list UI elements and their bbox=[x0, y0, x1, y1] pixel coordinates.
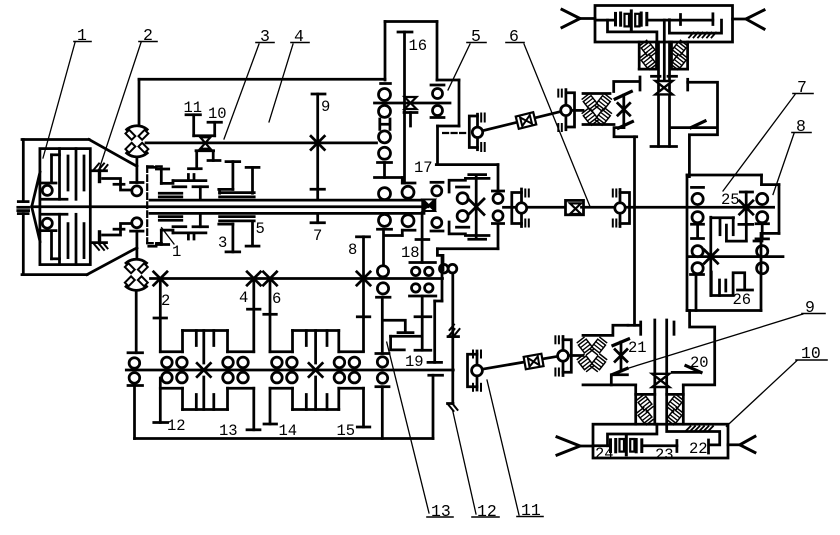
shaft coupling bowtie bbox=[524, 354, 544, 370]
neck caps bbox=[636, 393, 655, 396]
GEAR 18 column x408 bbox=[385, 178, 429, 263]
upper stair step bbox=[401, 178, 404, 184]
gear 15 cap lower bbox=[357, 426, 370, 429]
svg-text:4: 4 bbox=[294, 27, 304, 46]
svg-text:15: 15 bbox=[337, 422, 356, 440]
mirrored lower: hub double bars left bbox=[159, 215, 182, 218]
carrier bracket upper bbox=[449, 180, 465, 192]
stem down bbox=[382, 229, 385, 264]
right bearing upper bbox=[493, 194, 503, 204]
mesh cross upper axis bbox=[740, 201, 753, 214]
GEAR BLOCK 19 (2x2 bearings) bbox=[384, 263, 436, 351]
box right wall upper bbox=[497, 165, 500, 191]
gear 26 hook bbox=[711, 272, 744, 296]
box right wall bbox=[436, 22, 439, 81]
ring gear cap upper bbox=[431, 181, 443, 184]
gear 5 cap lower bbox=[246, 245, 259, 248]
box right wall lower bbox=[497, 224, 500, 249]
gear 18 stem bbox=[421, 214, 424, 263]
BRAKE ANCHORS right of master clutch bbox=[93, 157, 144, 257]
plate bar upper bbox=[173, 179, 206, 182]
tick bar below bbox=[378, 228, 392, 231]
clutch comb 14/15 base bbox=[293, 329, 339, 332]
dashed box bottom bbox=[147, 242, 163, 244]
svg-text:23: 23 bbox=[655, 446, 674, 464]
svg-text:5: 5 bbox=[256, 220, 265, 238]
svg-text:7: 7 bbox=[313, 227, 322, 245]
side bearing circle 2 bbox=[433, 106, 443, 116]
right bracket bbox=[683, 311, 714, 385]
lower cap bbox=[376, 385, 389, 388]
gear 4 tick bbox=[248, 308, 261, 311]
coupling bottom arc bbox=[127, 153, 148, 157]
wide bar bbox=[375, 176, 403, 179]
shelf over diamonds bbox=[583, 92, 610, 95]
gear 3 cap lower bbox=[226, 251, 240, 254]
gear 3 hub leg upper bbox=[218, 189, 221, 193]
gear 7 stem lower bbox=[316, 213, 319, 222]
left halfshaft arrow bbox=[562, 10, 580, 28]
upper bracket legs bbox=[719, 218, 722, 235]
bracket bbox=[512, 193, 522, 224]
joint pin bbox=[476, 114, 479, 150]
clutch plates upper bbox=[50, 155, 53, 182]
neck caps bbox=[639, 68, 656, 71]
clutch hub cap upper bbox=[156, 168, 168, 171]
clutch 19 upper hook bbox=[384, 320, 406, 331]
gear 3 hub bar lower bbox=[219, 223, 233, 226]
ELASTIC COUPLING upper bbox=[125, 79, 148, 157]
ELASTIC COUPLING lower bbox=[125, 259, 148, 438]
BOTTOM AXLE ASSEMBLY (elements 20-24) bbox=[557, 311, 755, 459]
bearing pairs below axle bbox=[162, 372, 173, 383]
lower step bracket bbox=[103, 224, 131, 236]
neck inner right bbox=[670, 42, 673, 69]
right bearing cap upper bbox=[492, 190, 503, 193]
leader 9 bbox=[624, 314, 803, 370]
RANGE PLANETARY BOX 17 bbox=[423, 165, 504, 270]
LOWER GEARBOX (range section, gears 2,4,6 / 12-15) bbox=[135, 237, 434, 439]
damper bars bbox=[609, 440, 612, 452]
leader 6 bbox=[524, 44, 590, 207]
anchor upper bar bbox=[93, 169, 107, 172]
gear 6 tick bbox=[264, 313, 277, 316]
housing bottom bbox=[135, 437, 434, 440]
lower comb teeth bbox=[181, 388, 184, 409]
right col bearing 2 bbox=[757, 212, 768, 223]
box 8 right wall bbox=[778, 185, 781, 234]
axle shaft continues bbox=[649, 19, 713, 22]
PTO SHAFT bearings below box17 bbox=[440, 264, 460, 411]
right bracket tick bbox=[686, 79, 689, 90]
neck inner left bbox=[655, 42, 658, 69]
mesh cross on countershaft bbox=[311, 136, 324, 149]
svg-text:26: 26 bbox=[733, 291, 752, 309]
LEADER LINES bbox=[43, 43, 803, 516]
top bar bbox=[410, 261, 436, 264]
neck left wall bbox=[634, 385, 637, 424]
bearing circle a bbox=[440, 264, 449, 273]
bearing circle below shaft bbox=[379, 214, 391, 226]
leader inner 1 bbox=[162, 228, 174, 244]
planet diamonds right bbox=[671, 40, 688, 58]
box 7 left wall bbox=[686, 175, 689, 311]
plate lower bars upper bbox=[173, 185, 186, 188]
tick bar bbox=[377, 296, 391, 299]
TOP AXLE ASSEMBLY (elements 1-4 top right) bbox=[562, 6, 764, 326]
leader 1 bbox=[43, 43, 75, 159]
stem to range box bbox=[436, 126, 439, 165]
tick 23 bbox=[676, 441, 679, 452]
ring bearing upper bbox=[432, 186, 442, 196]
right bearing lower bbox=[493, 211, 503, 221]
bar in box bbox=[679, 15, 682, 25]
planet cap upper bbox=[457, 186, 469, 189]
sleeve box bbox=[566, 200, 584, 214]
CALLOUT UNDERLINES bbox=[74, 42, 827, 518]
left bevel bracket bbox=[614, 82, 640, 92]
box bottom-left step bbox=[437, 249, 443, 270]
turbine gear stem lower bbox=[136, 231, 139, 257]
gear 14 stem lower bbox=[269, 388, 272, 424]
joint bracket bbox=[469, 116, 477, 148]
bevel shaft bbox=[622, 95, 625, 125]
side box right wall bbox=[458, 80, 461, 126]
box 7 top bbox=[687, 174, 762, 177]
svg-text:10: 10 bbox=[208, 105, 227, 123]
input flange cap lower bbox=[18, 212, 28, 215]
gear 3 cap upper bbox=[226, 160, 240, 163]
box top bbox=[436, 163, 498, 166]
freewheel stem bbox=[451, 337, 454, 404]
left col top tick bbox=[692, 186, 704, 189]
clutch hub bar lower bbox=[42, 213, 68, 216]
box 8 top bbox=[762, 183, 780, 186]
BOTTOM PTO JOINTS bbox=[468, 336, 608, 391]
axle box bbox=[593, 424, 728, 458]
tick bar bbox=[378, 161, 392, 164]
leader 8 bbox=[773, 134, 794, 195]
clutch 19 plate short bbox=[398, 331, 413, 334]
joint B pin bbox=[562, 337, 565, 376]
box left wall bbox=[384, 22, 387, 81]
gear 3 stem upper bbox=[232, 162, 235, 190]
box bottom bbox=[437, 247, 498, 250]
gear 18 tick bbox=[416, 238, 429, 241]
left halfshaft arrow bbox=[557, 437, 580, 455]
lower comb teeth bbox=[291, 388, 294, 409]
svg-text:24: 24 bbox=[595, 445, 614, 463]
sun shaft vertical bbox=[475, 177, 478, 237]
side box bottom bbox=[438, 125, 460, 128]
gear on axis stem bbox=[745, 192, 748, 224]
upper stair bar bbox=[402, 182, 415, 185]
gear 11 stem bbox=[192, 115, 195, 136]
box 7 right wall upper bbox=[760, 175, 763, 185]
leader 3 bbox=[224, 44, 259, 139]
leader 10 bbox=[726, 361, 797, 427]
gear 16 stem bbox=[403, 32, 406, 183]
turbine gear cap upper bbox=[131, 181, 143, 184]
housing bottom bbox=[22, 273, 87, 276]
bearing circle upper bbox=[42, 185, 52, 195]
hashes bbox=[561, 90, 563, 97]
gear on axis cap bbox=[740, 191, 752, 194]
svg-text:11: 11 bbox=[184, 99, 203, 117]
wire lower gearbox input line y278 bbox=[151, 277, 443, 280]
left col bearing 2 bbox=[692, 212, 703, 223]
pin bbox=[619, 190, 622, 227]
joint B circle bbox=[558, 350, 569, 361]
svg-text:1: 1 bbox=[172, 243, 181, 261]
gear 3 stem lower bbox=[232, 224, 235, 252]
right bracket tick bbox=[673, 322, 676, 334]
bearing circle above shaft bbox=[379, 188, 391, 200]
sleeve bowtie bbox=[570, 203, 581, 214]
long vertical to lower axle bbox=[633, 137, 636, 326]
bracket bbox=[566, 93, 575, 127]
svg-text:21: 21 bbox=[628, 339, 647, 357]
brake drum clutch bar bbox=[712, 14, 715, 25]
LAYSHAFT column x384 bbox=[375, 84, 403, 439]
clutch comb 12/13 base bbox=[183, 329, 228, 332]
plate bar lower bbox=[173, 232, 206, 235]
synchro stem bbox=[409, 113, 412, 127]
planet bearing lower bbox=[457, 211, 468, 222]
svg-text:5: 5 bbox=[471, 27, 481, 46]
freewheel upper hatches bbox=[449, 329, 455, 336]
input bowtie coupling bbox=[423, 199, 435, 211]
upper step cap bbox=[114, 183, 124, 186]
left col stem to bottom bbox=[695, 275, 698, 311]
lower stair step bbox=[401, 230, 404, 235]
gear 5 stem upper bbox=[251, 167, 254, 193]
right col bottom tick bbox=[754, 240, 762, 243]
planet diamonds left bbox=[636, 394, 653, 412]
anchor upper hatches bbox=[94, 164, 100, 171]
H link bbox=[380, 119, 390, 129]
leader 4 bbox=[269, 44, 293, 122]
joint A hashes bbox=[472, 351, 474, 358]
planetary mesh cross bbox=[469, 199, 485, 215]
lower axis mesh cross bbox=[704, 250, 717, 263]
left halfshaft line bbox=[580, 445, 593, 448]
svg-text:1: 1 bbox=[77, 26, 87, 45]
coupling top arc bbox=[127, 126, 148, 130]
bevel tooth lower bbox=[613, 369, 628, 375]
step to plate upper bbox=[161, 181, 173, 184]
bearing pairs above axle bbox=[162, 357, 173, 368]
plate upper bars lower bbox=[173, 225, 186, 228]
bearing circle bbox=[379, 105, 391, 117]
bearing circle lower bbox=[402, 215, 414, 227]
damper bars bbox=[614, 13, 617, 25]
shelf under diamonds bbox=[583, 123, 614, 126]
svg-text:10: 10 bbox=[801, 344, 821, 363]
top cap bbox=[381, 82, 391, 85]
svg-text:11: 11 bbox=[521, 501, 541, 520]
right halfshaft line bbox=[728, 443, 740, 446]
dashed box left bbox=[146, 166, 148, 243]
leader 7 bbox=[723, 95, 795, 192]
fork lower bar bbox=[196, 149, 214, 152]
svg-text:6: 6 bbox=[272, 290, 281, 308]
svg-text:22: 22 bbox=[689, 440, 708, 458]
GEARBOX 16 (top box) bbox=[375, 22, 460, 184]
anchor lower stem bbox=[98, 232, 101, 243]
joint A pin bbox=[476, 351, 479, 390]
upper bracket right leg bbox=[745, 224, 748, 241]
joint circle bbox=[561, 105, 571, 115]
synchro cap bbox=[404, 111, 417, 114]
idler shaft vertical bbox=[709, 217, 712, 295]
pto stem bbox=[451, 273, 454, 337]
bearing circle lower bbox=[42, 218, 52, 228]
mesh cross on axle left bbox=[197, 363, 210, 376]
clutch bearing cap lower bbox=[42, 229, 57, 232]
right bearing cap lower bbox=[492, 222, 503, 225]
shelf bars y351.8 bbox=[160, 350, 182, 353]
GEAR 9 and GEAR 7 column bbox=[311, 94, 325, 223]
axle shaft inside bbox=[593, 444, 610, 447]
joint A bracket bbox=[468, 354, 478, 387]
gear 2 stem bbox=[159, 279, 162, 352]
axle shaft inside bbox=[595, 19, 615, 22]
bar 22 bbox=[707, 440, 710, 453]
bearing circle bbox=[379, 89, 391, 101]
upper step bracket bbox=[103, 179, 131, 191]
gear 16 cap bbox=[398, 31, 412, 34]
right halfshaft arrow bbox=[746, 10, 764, 29]
right col bearing 1 bbox=[757, 193, 768, 204]
planet cap lower bbox=[457, 226, 469, 229]
right col link bars bbox=[756, 224, 769, 239]
gear 26 inner legs bbox=[718, 280, 721, 296]
upper countershaft 2 line bbox=[375, 102, 451, 105]
hashes bbox=[524, 190, 526, 197]
gear 3 hub bar upper bbox=[219, 188, 233, 191]
stem to housing bottom bbox=[133, 386, 136, 439]
mesh cross gear 4 bbox=[247, 272, 260, 285]
clutch 19 plate long bbox=[391, 335, 422, 338]
gear 20 bevel tooth bbox=[686, 366, 701, 373]
box top bbox=[385, 20, 437, 23]
fork upper bar bbox=[194, 134, 215, 137]
shaft nose upper diagonal bbox=[32, 172, 40, 207]
wall lower bbox=[432, 375, 435, 438]
hub double bars right upper bbox=[220, 191, 255, 194]
right halfshaft line bbox=[733, 18, 747, 21]
housing top bbox=[22, 138, 89, 141]
comb teeth bbox=[181, 331, 184, 352]
left col bottom tick bbox=[691, 273, 704, 276]
leader 13 bbox=[387, 342, 429, 513]
housing top diagonal bbox=[89, 140, 137, 167]
anchor upper stem bbox=[98, 171, 101, 182]
shaft nose lower diagonal bbox=[32, 207, 40, 242]
stem down bbox=[421, 296, 424, 350]
wire top long line y79 bbox=[139, 78, 385, 81]
MAIN_SHAFT_GROUP bbox=[32, 200, 774, 213]
LOWER GEARBOX RIGHT WALL bbox=[428, 255, 443, 438]
gear 7 tick lower bbox=[311, 221, 324, 224]
freewheel upper bar bbox=[448, 335, 459, 338]
shaft caps bbox=[652, 75, 661, 78]
upper-left bracket bbox=[583, 325, 628, 335]
bearing circles row2 bbox=[412, 284, 420, 292]
joint A circle bbox=[472, 365, 483, 376]
bevel mesh cross bbox=[615, 350, 627, 362]
UNIVERSAL JOINT 1 on output shaft bbox=[512, 189, 529, 227]
wire main shaft lower line bbox=[150, 212, 424, 215]
left col bearing 1 bbox=[692, 193, 703, 204]
wire main shaft upper line bbox=[150, 199, 424, 202]
bevel tooth lower bbox=[618, 122, 632, 129]
leader 12 bbox=[453, 410, 476, 514]
svg-text:8: 8 bbox=[796, 117, 806, 136]
svg-text:25: 25 bbox=[721, 191, 740, 209]
plate stem to shaft upper bbox=[199, 187, 202, 200]
bevel shaft bbox=[620, 342, 623, 371]
bevel mesh cross bbox=[618, 103, 630, 115]
CLUTCH JOINT near box16 bbox=[443, 112, 561, 152]
svg-text:9: 9 bbox=[805, 298, 815, 317]
clutch hub cap lower bbox=[156, 243, 168, 246]
left col bearing 4 bbox=[692, 263, 703, 274]
shaft bowtie bbox=[652, 374, 669, 387]
long vertical end tick bbox=[628, 324, 641, 327]
gear 7 tick upper bbox=[311, 188, 324, 191]
pump bearing circle lower bbox=[129, 373, 140, 384]
pin bbox=[520, 189, 523, 227]
svg-text:12: 12 bbox=[167, 417, 186, 435]
wall jog bbox=[435, 300, 442, 303]
joint B bracket bbox=[563, 340, 571, 373]
pto bearing cap bbox=[376, 352, 389, 355]
hashes bbox=[612, 190, 614, 197]
bearing circle bbox=[379, 147, 391, 159]
side bearing cap bbox=[431, 84, 444, 87]
joint hashes bbox=[480, 114, 482, 122]
gear 10 stem bbox=[213, 122, 216, 136]
joint circle bbox=[472, 127, 482, 137]
coupling top arc bbox=[126, 259, 147, 263]
hub double bars right lower bbox=[220, 215, 255, 218]
synchro bowtie bbox=[405, 97, 417, 109]
vertical shaft pair bbox=[657, 42, 660, 147]
gear lower cap bbox=[739, 223, 753, 226]
hub double bars left upper bbox=[159, 192, 182, 195]
side bearing lower cap bbox=[431, 116, 444, 119]
mesh cross on axle right bbox=[309, 363, 322, 376]
ring bearing lower bbox=[432, 218, 442, 228]
neck right wall bbox=[682, 385, 685, 424]
anchor lower hatches bbox=[94, 243, 100, 250]
svg-text:16: 16 bbox=[409, 37, 428, 55]
pin bbox=[565, 90, 568, 130]
gear 14 cap lower bbox=[264, 423, 277, 426]
right col bearing 3 bbox=[757, 246, 768, 257]
stem to housing bottom bbox=[381, 387, 384, 439]
left halfshaft line bbox=[580, 17, 595, 20]
wire main shaft center line bbox=[32, 205, 428, 208]
pto bearing circle lower bbox=[377, 373, 387, 383]
bracket bbox=[620, 193, 630, 224]
right hub line bbox=[672, 371, 700, 374]
lower stair bar left bbox=[385, 234, 403, 237]
TOP PTO JOINT (left of axle) bbox=[558, 90, 614, 131]
gear 11 cap bbox=[186, 113, 200, 116]
